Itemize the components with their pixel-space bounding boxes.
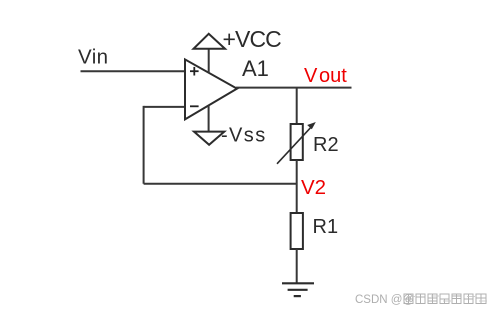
svg-text:V2: V2: [301, 176, 326, 199]
watermark CSDN: [355, 294, 414, 306]
resistor R1 body: [291, 213, 303, 249]
wire R2 to node V2: [296, 160, 298, 213]
wire feedback bottom horizontal: [144, 183, 297, 185]
op-amp A1: [185, 59, 237, 119]
svg-text:Vin: Vin: [78, 46, 108, 69]
svg-text:V out: V out: [304, 65, 347, 87]
power -Vss stem: [208, 105, 210, 131]
watermark echo layer: [407, 296, 487, 301]
wire output: [236, 87, 352, 89]
svg-text:R2: R2: [313, 134, 339, 156]
svg-text:CSDN @@: CSDN @@: [355, 294, 414, 306]
wire feedback left vertical: [143, 106, 145, 184]
watermark username glyph blocks: [404, 294, 486, 304]
wire Vin input: [81, 70, 186, 72]
resistor R2 body: [291, 124, 303, 160]
resistor R2 arrow (variable): [277, 122, 316, 164]
svg-text:A1: A1: [242, 56, 269, 81]
power +VCC stem: [208, 49, 210, 73]
wire R1 to ground: [296, 249, 298, 283]
power -Vss triangle symbol: [194, 132, 224, 145]
pin plus symbol: [190, 67, 199, 76]
ground: [282, 283, 314, 296]
pin minus symbol: [190, 105, 199, 107]
power +VCC triangle symbol: [194, 34, 226, 49]
svg-text:+VCC: +VCC: [223, 26, 282, 52]
wire output to R2: [296, 88, 298, 124]
svg-text:-Vss: -Vss: [221, 124, 267, 146]
wire inverting input: [144, 106, 185, 108]
svg-text:R1: R1: [313, 216, 339, 238]
